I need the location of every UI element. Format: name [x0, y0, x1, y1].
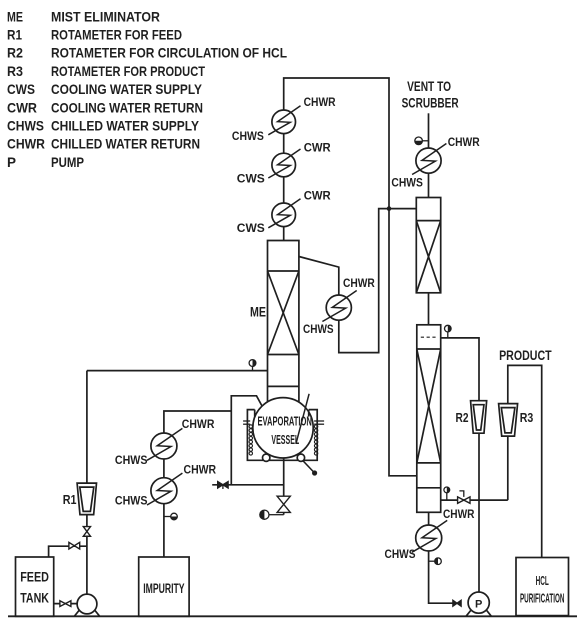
rotameter R3 — [499, 404, 518, 437]
instrument at C2 top — [445, 325, 452, 338]
wire: E7 to E8 — [163, 459, 165, 478]
wire: E6 to pump P2 — [429, 551, 453, 603]
drain sample instrument — [260, 510, 284, 519]
wire: C2 bottom to E6 — [428, 512, 430, 525]
label CHWR of E8 — [184, 463, 217, 477]
instrument on feed header — [249, 360, 256, 371]
svg-text:CHWS: CHWS — [115, 453, 148, 467]
rotameter R1 — [77, 483, 96, 514]
svg-text:R3: R3 — [7, 63, 23, 79]
wire: vessel bottom drain — [283, 458, 285, 515]
svg-text:CHWS: CHWS — [115, 493, 148, 507]
label ME — [250, 304, 266, 320]
column C2 packing X — [417, 349, 441, 463]
wire: C1 bottom to C2 top — [428, 293, 430, 325]
svg-text:ME: ME — [7, 8, 23, 24]
label CHWR of E5 — [448, 135, 480, 149]
svg-text:CHWR: CHWR — [448, 135, 480, 149]
wire: R3 branch with PRODUCT header — [508, 365, 542, 557]
instrument at C2 bottoms — [444, 487, 450, 500]
label HCL box — [516, 558, 569, 616]
column ME packing X — [268, 271, 299, 355]
label CWR of E2 — [304, 141, 331, 155]
wire: vent line — [428, 113, 430, 148]
heat exchanger E8 (CHWS/CHWR) — [147, 473, 182, 505]
feed tank — [16, 557, 54, 616]
column C2 shell — [417, 325, 441, 513]
valve before pump P2 — [453, 600, 461, 606]
svg-text:CWR: CWR — [304, 141, 331, 155]
heat exchanger E7 (CHWS/CHWR) — [147, 428, 182, 460]
drain valve (bath side) — [212, 482, 284, 489]
instrument on impurity line — [164, 513, 177, 520]
column C1 shell — [416, 198, 440, 293]
svg-text:HCL: HCL — [536, 573, 549, 588]
svg-text:MIST ELIMINATOR: MIST ELIMINATOR — [51, 8, 160, 24]
pump P1 — [74, 594, 99, 616]
svg-text:CHWR: CHWR — [182, 417, 215, 431]
label SCRUBBER — [402, 95, 459, 110]
label EVAPORATION — [258, 414, 312, 429]
wire: HX stack interconnections — [283, 134, 285, 241]
label CWS of E3 — [237, 221, 265, 235]
label R3 — [520, 410, 534, 425]
label CHWR of E1 — [304, 95, 336, 109]
level mark in C2 top — [421, 336, 436, 338]
impurity tank — [139, 557, 189, 616]
label CHWS of E7 — [115, 453, 148, 467]
svg-text:FEED: FEED — [20, 570, 49, 585]
column C1 packing X — [416, 221, 440, 293]
label VESSEL — [271, 432, 299, 447]
svg-text:CWS: CWS — [7, 81, 35, 97]
svg-text:CHWS: CHWS — [303, 322, 334, 336]
svg-text:CHWS: CHWS — [7, 118, 44, 134]
label R1 — [63, 492, 77, 507]
svg-text:SCRUBBER: SCRUBBER — [402, 95, 459, 110]
instrument below E6 — [429, 558, 442, 565]
svg-text:PUMP: PUMP — [51, 154, 84, 170]
svg-text:R1: R1 — [63, 492, 77, 507]
wire: C2 top to R2 branch — [441, 338, 479, 592]
svg-text:P: P — [7, 154, 16, 170]
dip tube in vessel — [296, 394, 309, 443]
instrument on vent line — [415, 137, 429, 145]
svg-text:CWS: CWS — [237, 221, 265, 235]
svg-text:PRODUCT: PRODUCT — [499, 348, 552, 363]
svg-text:COOLING WATER RETURN: COOLING WATER RETURN — [51, 99, 203, 115]
label CWS of E2 — [237, 172, 265, 186]
evaporation vessel circle — [253, 398, 313, 458]
svg-text:CHILLED WATER SUPPLY: CHILLED WATER SUPPLY — [51, 118, 200, 134]
wire: E5 to scrubber column C1 — [428, 173, 430, 197]
wire: pump P1 suction — [54, 603, 77, 605]
valve on product line — [458, 491, 470, 503]
label CHWS of E6 — [385, 547, 416, 561]
junction node at vent header — [387, 206, 392, 211]
vessel drain valve — [277, 496, 290, 512]
svg-text:CHWS: CHWS — [391, 176, 423, 190]
svg-text:CHWR: CHWR — [7, 136, 45, 152]
svg-text:CHWR: CHWR — [304, 95, 336, 109]
bath coil inlets — [243, 421, 324, 424]
svg-text:ROTAMETER FOR PRODUCT: ROTAMETER FOR PRODUCT — [51, 63, 205, 79]
pump P2 — [466, 592, 491, 616]
sample line with plug — [303, 461, 317, 476]
svg-text:CWR: CWR — [304, 189, 331, 203]
wire: ME column overhead to condenser — [299, 257, 339, 296]
wire: tank bypass line — [49, 546, 87, 557]
svg-text:R1: R1 — [7, 27, 22, 43]
wire: bath overflow pipe — [231, 396, 262, 485]
label R2 — [456, 410, 469, 425]
heat exchanger E4 (condenser CHWS/CHWR) — [322, 291, 356, 322]
svg-text:R2: R2 — [7, 45, 23, 61]
label CHWR of E7 — [182, 417, 215, 431]
legend text block — [7, 8, 287, 170]
label CHWS of E4 — [303, 322, 334, 336]
column ME shell — [268, 241, 299, 402]
svg-text:PURIFICATION: PURIFICATION — [520, 590, 565, 605]
label CHWR of E6 — [443, 507, 475, 521]
heat exchanger E3 (CWS/CWR) — [268, 199, 300, 228]
wire: HX stack vertical riser and top header to right column — [284, 78, 417, 476]
heat exchanger E1 (CHWS/CHWR) — [268, 106, 300, 135]
label CHWS of E1 — [232, 129, 264, 143]
wire: condenser return loop to scrubber column — [339, 209, 417, 353]
svg-text:CHWR: CHWR — [343, 276, 375, 290]
svg-text:CWS: CWS — [237, 172, 265, 186]
svg-text:CHWR: CHWR — [443, 507, 475, 521]
svg-text:ROTAMETER FOR FEED: ROTAMETER FOR FEED — [51, 27, 182, 43]
svg-text:P: P — [475, 598, 482, 610]
wire: C2 bottoms product line — [441, 499, 508, 501]
heat exchanger E6 (CHWS/CHWR) — [412, 520, 447, 552]
wire: bath overflow to impurity coolers — [164, 411, 231, 433]
label VENT TO — [407, 79, 451, 94]
wire: E8 to impurity tank — [163, 504, 165, 557]
svg-text:VENT TO: VENT TO — [407, 79, 451, 94]
vessel bottom ports — [263, 454, 305, 461]
wire: R1 riser — [86, 371, 88, 594]
svg-text:ME: ME — [250, 304, 266, 320]
label PRODUCT — [499, 348, 552, 363]
valve below R1 — [83, 527, 90, 537]
svg-text:CWR: CWR — [7, 99, 37, 115]
svg-text:ROTAMETER FOR CIRCULATION OF H: ROTAMETER FOR CIRCULATION OF HCL — [51, 45, 287, 61]
heat exchanger E2 (CWS/CWR) — [268, 149, 300, 178]
heat exchanger E5 (vent cooler CHWS/CHWR) — [412, 144, 446, 175]
svg-text:CHILLED WATER RETURN: CHILLED WATER RETURN — [51, 136, 200, 152]
svg-text:CHWS: CHWS — [385, 547, 416, 561]
svg-text:IMPURITY: IMPURITY — [143, 581, 184, 596]
label CHWR of E4 — [343, 276, 375, 290]
svg-text:CHWS: CHWS — [232, 129, 264, 143]
label CHWS of E5 — [391, 176, 423, 190]
bath heating coils — [249, 425, 318, 455]
valve on suction — [60, 601, 71, 607]
svg-text:COOLING WATER SUPPLY: COOLING WATER SUPPLY — [51, 81, 203, 97]
svg-text:VESSEL: VESSEL — [271, 432, 299, 447]
svg-text:R2: R2 — [456, 410, 469, 425]
svg-text:CHWR: CHWR — [184, 463, 217, 477]
label CWR of E3 — [304, 189, 331, 203]
valve on bypass — [69, 542, 80, 549]
label CHWS of E8 — [115, 493, 148, 507]
wire: feed header to ME column — [87, 370, 268, 372]
svg-text:R3: R3 — [520, 410, 534, 425]
bath outline — [247, 410, 317, 461]
rotameter R2 — [471, 401, 487, 434]
ground line — [8, 615, 577, 617]
svg-text:TANK: TANK — [20, 591, 49, 606]
